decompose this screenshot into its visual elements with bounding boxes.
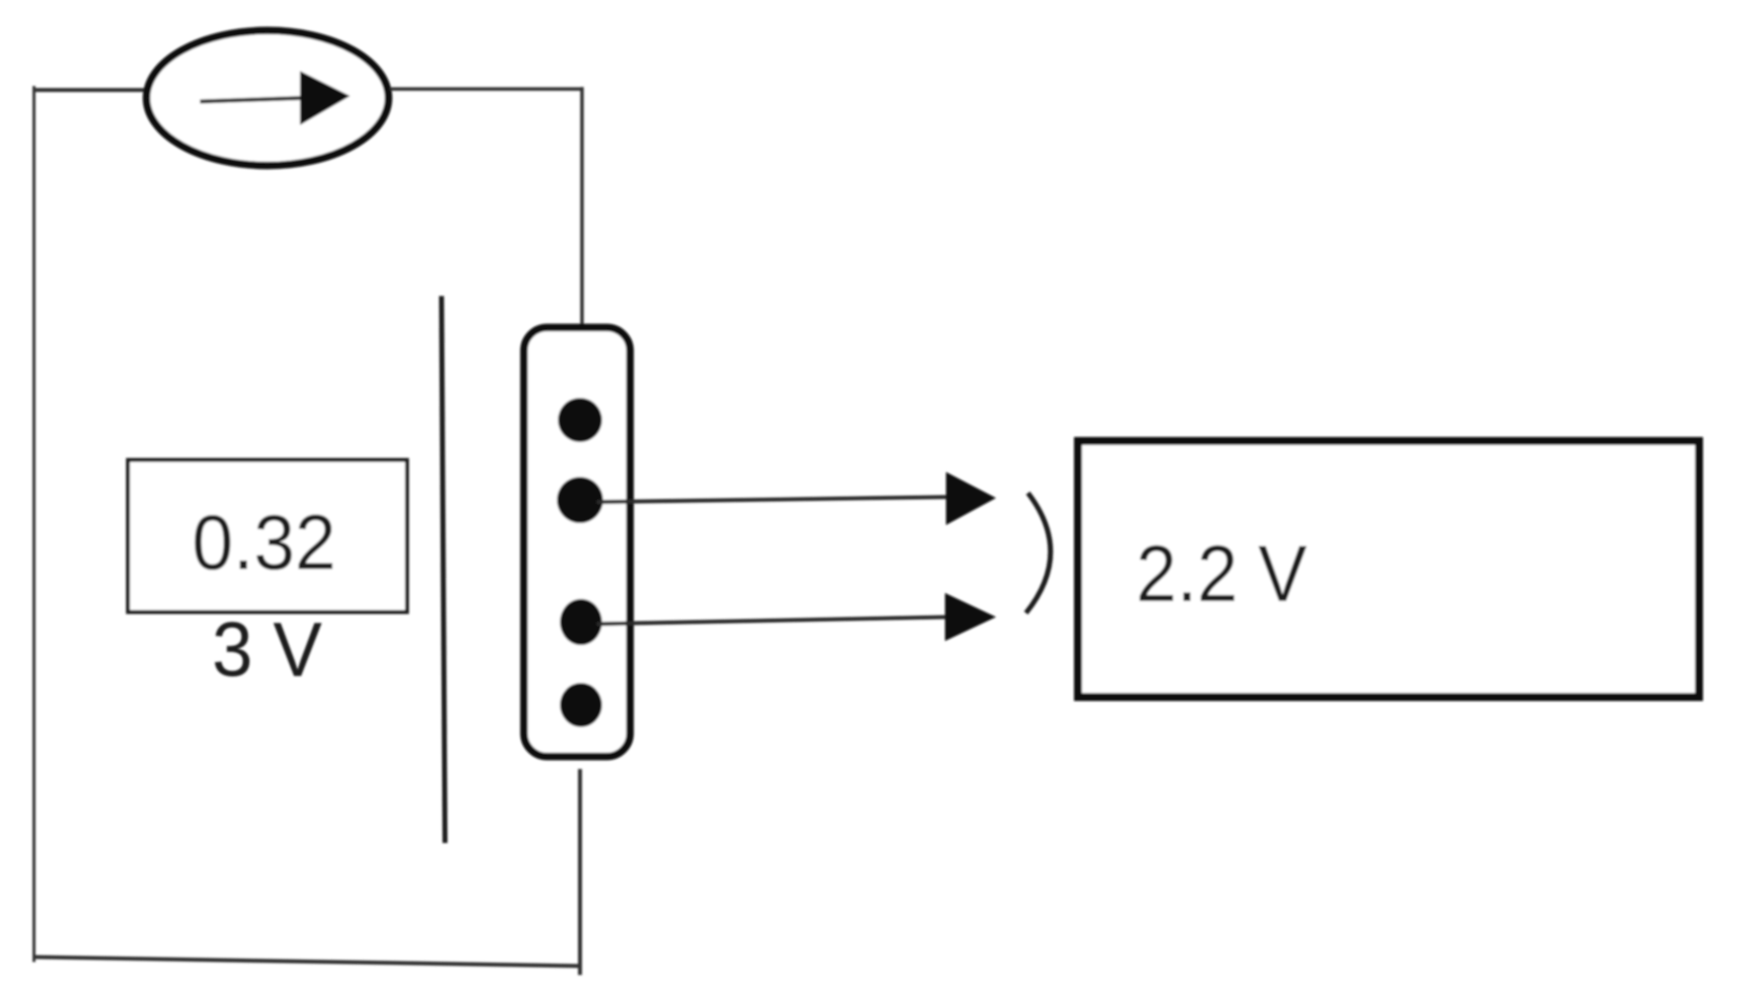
cell holder block [524,328,630,757]
ammeter reading box [128,460,407,612]
voltmeter reading box [1078,441,1699,697]
svg-text:3 V: 3 V [212,607,323,693]
arc bracket [1026,493,1051,613]
terminal dot 4 [560,683,602,727]
terminal dot 3 [560,599,602,645]
voltmeter lead arrow lower [597,593,996,641]
svg-text:0.32: 0.32 [192,498,336,586]
terminal dot 2 [557,477,603,523]
battery long electrode plate [442,296,446,843]
wire bottom-right vertical [578,769,582,975]
wire right vertical upper [580,87,584,330]
wire top-left horizontal [33,88,150,92]
wire left vertical [33,86,36,962]
svg-text:2.2 V: 2.2 V [1136,529,1308,618]
voltmeter lead arrow upper [597,472,996,525]
wire top-right horizontal [390,87,581,91]
wire bottom horizontal [33,957,580,966]
terminal dot 1 [558,398,602,442]
ammeter A (circle with current-direction arrow) [147,31,389,166]
